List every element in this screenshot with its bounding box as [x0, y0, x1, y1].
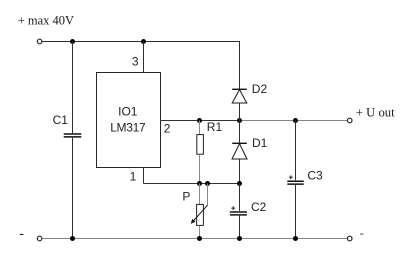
- svg-text:R1: R1: [207, 120, 223, 134]
- junction wiper top: [205, 181, 210, 186]
- junction R1 top: [197, 118, 202, 123]
- capacitor C3 polarity plus: [289, 175, 293, 179]
- svg-text:-: -: [19, 226, 24, 241]
- wire pin3: [143, 42, 145, 73]
- terminal output -: [347, 236, 352, 241]
- wire C3 bottom stub: [295, 185, 297, 239]
- capacitor C2 polarity plus: [231, 206, 235, 210]
- junction pin3 top: [141, 39, 146, 44]
- pot wiper arrow: [191, 205, 208, 224]
- wire D2 bottom stub: [239, 103, 241, 121]
- wire D2 drop: [239, 42, 241, 90]
- wire pot bottom stub: [199, 226, 201, 239]
- capacitor C3: [287, 181, 303, 184]
- wire R1 top stub: [199, 121, 201, 135]
- junction diode column top: [237, 118, 242, 123]
- terminal input +: [37, 39, 42, 44]
- junction C1 top: [70, 39, 75, 44]
- junction C3 top: [293, 118, 298, 123]
- wire C1 branch lower: [72, 138, 74, 239]
- wire adjust rail: [144, 183, 240, 185]
- svg-text:C3: C3: [307, 169, 323, 183]
- svg-text:1: 1: [130, 169, 137, 183]
- junction pot bottom: [197, 236, 202, 241]
- svg-text:D2: D2: [252, 82, 268, 96]
- resistor R1: [197, 135, 204, 155]
- capacitor C2: [230, 212, 247, 215]
- junction R1 bottom: [197, 181, 202, 186]
- junction D1 bottom: [237, 181, 242, 186]
- junction C1 bottom: [70, 236, 75, 241]
- wire C2 bottom stub: [239, 216, 241, 239]
- junction C2 bottom: [237, 236, 242, 241]
- capacitor C1: [64, 134, 82, 137]
- svg-text:P: P: [182, 190, 190, 204]
- wire pot wiper drop: [207, 184, 209, 206]
- wire bottom rail: [42, 238, 348, 240]
- wire C1 branch upper: [72, 42, 74, 134]
- op-amp/regulator IO1 box: [97, 73, 161, 168]
- wire output rail right: [240, 120, 348, 122]
- terminal input -: [37, 236, 42, 241]
- svg-text:-: -: [360, 226, 364, 240]
- junction C3 bottom: [293, 236, 298, 241]
- svg-text:+ U out: + U out: [356, 105, 395, 119]
- svg-text:IO1: IO1: [118, 104, 138, 118]
- wire R1 bottom stub: [199, 154, 201, 183]
- wire pot top stub: [199, 184, 201, 205]
- wire D1 bottom stub: [239, 159, 241, 184]
- svg-text:C1: C1: [53, 113, 69, 127]
- diode D2: [232, 89, 247, 103]
- wire C2 top stub: [239, 184, 241, 212]
- wire pin2 output segment: [160, 120, 240, 122]
- potentiometer P body: [197, 204, 204, 225]
- wire C3 top stub: [295, 121, 297, 181]
- wire pin1 drop: [143, 167, 145, 184]
- wire D1 top stub: [239, 121, 241, 144]
- svg-text:C2: C2: [251, 200, 267, 214]
- svg-text:2: 2: [164, 122, 171, 136]
- svg-text:D1: D1: [252, 136, 268, 150]
- svg-text:3: 3: [132, 55, 139, 69]
- wire top rail: [42, 41, 240, 43]
- svg-text:LM317: LM317: [110, 121, 146, 135]
- diode D1: [232, 143, 247, 159]
- svg-text:+ max 40V: + max 40V: [18, 14, 74, 28]
- terminal output +: [347, 118, 352, 123]
